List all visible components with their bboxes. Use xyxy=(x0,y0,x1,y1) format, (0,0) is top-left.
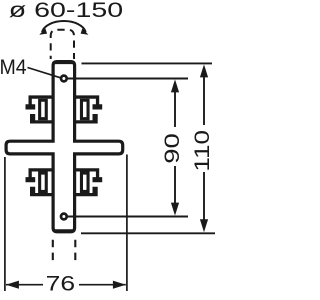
svg-text:M4: M4 xyxy=(0,56,27,79)
svg-text:90: 90 xyxy=(160,133,184,164)
svg-text:ø 60-150: ø 60-150 xyxy=(9,0,123,22)
svg-text:110: 110 xyxy=(190,130,214,172)
svg-text:76: 76 xyxy=(46,272,76,296)
